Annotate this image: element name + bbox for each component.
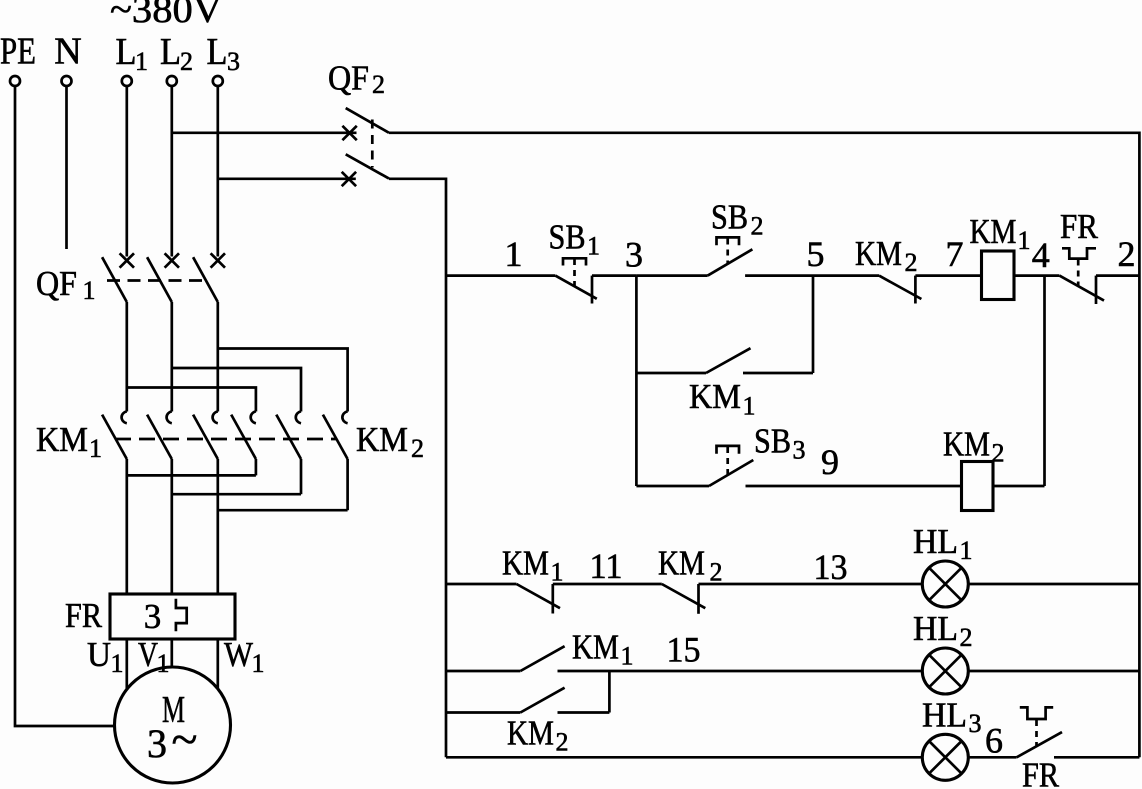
wire KM2 coil up to node 4 — [993, 485, 1045, 488]
svg-text:1: 1 — [89, 434, 102, 463]
thermal relay FR box — [110, 594, 235, 639]
svg-text:3: 3 — [144, 597, 162, 636]
svg-text:FR: FR — [1022, 756, 1060, 789]
contact FR NO (HL3 row) — [1017, 707, 1062, 757]
svg-text:SB: SB — [549, 218, 586, 257]
wire node 5 to KM2 NC — [813, 274, 879, 277]
wire rail to KM1 NO — [446, 670, 520, 673]
terminal N — [62, 76, 72, 86]
contactor KM2 main contact 2 — [276, 411, 301, 494]
wire L1 down to QF1 pole 1 — [125, 86, 128, 257]
wire L3 jumper to KM2 contact 3 — [218, 349, 348, 412]
contactor KM1 main contact 3 — [193, 411, 218, 594]
svg-text:2: 2 — [905, 248, 918, 277]
wire node 3 to SB2 — [636, 274, 707, 277]
svg-text:HL: HL — [913, 609, 958, 648]
contact KM1 NC (HL1 row) — [517, 584, 561, 614]
pushbutton SB2 (NO) — [708, 237, 753, 275]
wire SB2 to node 5 — [745, 274, 813, 277]
contactor KM1 main contact 1 — [102, 411, 127, 594]
svg-text:1: 1 — [960, 536, 973, 565]
right control rail — [1138, 132, 1141, 758]
lamp HL2 — [922, 648, 968, 694]
svg-text:SB: SB — [711, 198, 748, 237]
breaker QF2 pole 2 blade — [346, 154, 389, 178]
svg-text:KM: KM — [507, 714, 554, 753]
contactor KM2 label (main contacts) — [356, 420, 424, 463]
svg-text:PE: PE — [0, 31, 36, 73]
svg-text:1: 1 — [157, 649, 170, 678]
svg-text:KM: KM — [502, 544, 549, 583]
contactor linkage dashed — [115, 438, 337, 441]
wire V1 to motor — [170, 639, 173, 667]
motor terminal label U1 — [87, 635, 124, 678]
wire KM2 NC to KM1 coil — [915, 274, 981, 277]
svg-text:QF: QF — [328, 59, 369, 98]
svg-text:HL: HL — [922, 696, 967, 735]
contactor KM1 main contact 2 — [147, 411, 172, 594]
wire node3 rail to SB3 — [636, 485, 709, 488]
lamp HL3 label — [922, 696, 982, 739]
wire KM2 contact2 bottom jumper — [172, 493, 301, 496]
contact KM1 NO label — [689, 377, 756, 421]
contact KM1 NO (HL2 row) — [520, 646, 564, 671]
pushbutton SB1 label — [549, 218, 601, 261]
breaker QF2 pole 1 cross — [342, 126, 356, 140]
left control rail — [445, 178, 448, 758]
wire SB1 to node 3 — [592, 274, 636, 277]
svg-text:SB: SB — [754, 422, 791, 461]
breaker QF2 label — [328, 59, 385, 100]
svg-text:KM: KM — [689, 377, 741, 416]
svg-text:KM: KM — [943, 425, 990, 464]
breaker QF1 linkage dashed — [107, 279, 206, 282]
wire PE down and to motor frame — [15, 86, 115, 726]
terminal label L1 — [116, 31, 149, 76]
contactor KM2 main contact 3 — [323, 411, 348, 510]
svg-text:KM: KM — [356, 420, 408, 459]
svg-text:2: 2 — [372, 70, 385, 99]
breaker QF1 pole 2 — [147, 253, 179, 411]
contact KM2 NC label (HL1 row) — [658, 544, 723, 587]
svg-text:~380V: ~380V — [110, 0, 223, 31]
wire rail to SB1 — [446, 274, 555, 277]
svg-text:3: 3 — [969, 709, 982, 738]
wire N — [65, 86, 68, 249]
svg-text:U: U — [87, 635, 111, 674]
breaker QF2 pole 2 cross — [342, 172, 356, 186]
svg-text:9: 9 — [821, 442, 839, 482]
svg-text:3: 3 — [147, 721, 167, 766]
wire node 3 down to SB3 row — [635, 276, 638, 486]
svg-text:2: 2 — [751, 212, 764, 241]
wire QF2 pole1 output to right rail — [389, 131, 1139, 134]
pushbutton SB2 label — [711, 198, 764, 241]
coil KM2 label — [943, 425, 1005, 468]
svg-text:KM: KM — [970, 212, 1017, 251]
motor label 3~ — [147, 713, 197, 766]
svg-text:13: 13 — [814, 547, 848, 587]
wire L2 branch to QF2 pole 1 — [172, 131, 357, 134]
svg-text:1: 1 — [551, 558, 564, 587]
svg-text:5: 5 — [807, 234, 825, 274]
contact KM2 NO label (branch row) — [507, 714, 569, 757]
svg-text:2: 2 — [1118, 234, 1136, 274]
wire HL2 to right rail — [968, 670, 1139, 673]
svg-text:2: 2 — [411, 434, 424, 463]
svg-text:1: 1 — [135, 47, 148, 76]
svg-text:3: 3 — [793, 436, 806, 465]
wire branch left — [636, 372, 706, 375]
terminal L2 — [167, 76, 177, 86]
svg-text:1: 1 — [505, 234, 523, 274]
terminal label L3 — [207, 31, 241, 76]
wire L2 down to QF1 pole 2 — [170, 86, 173, 257]
pushbutton SB3 (NO) — [709, 446, 753, 486]
terminal L1 — [122, 76, 132, 86]
lamp HL1 — [922, 561, 968, 607]
terminal L3 — [213, 76, 223, 86]
wire rail to KM2 NO (branch row) — [446, 711, 520, 714]
pushbutton SB1 (NC) — [555, 258, 597, 303]
thermal element symbol — [176, 599, 187, 631]
svg-text:11: 11 — [590, 546, 623, 586]
wire SB3 to KM2 coil — [746, 485, 962, 488]
svg-text:KM: KM — [658, 544, 705, 583]
svg-text:QF: QF — [36, 264, 77, 303]
contactor KM2 main contact 1 — [231, 411, 256, 475]
svg-text:KM: KM — [855, 234, 902, 273]
svg-text:3: 3 — [625, 235, 643, 275]
svg-text:1: 1 — [587, 232, 600, 261]
wire L1 jumper to KM2 contact 1 — [127, 388, 256, 412]
wire L3 branch to QF2 pole 2 — [218, 177, 356, 180]
junction wire to KM2 branch — [608, 671, 611, 713]
svg-text:6: 6 — [985, 721, 1003, 761]
motor terminal label W1 — [224, 635, 265, 678]
wire KM1 NO to lamp HL2 — [558, 670, 923, 673]
wire W1 to motor — [216, 639, 219, 689]
wire node 5 down to KM1 aux branch — [812, 276, 815, 373]
breaker QF2 pole 1 blade — [346, 108, 389, 133]
breaker QF1 pole 1 — [102, 253, 134, 411]
svg-text:1: 1 — [1018, 226, 1031, 255]
svg-text:KM: KM — [572, 628, 619, 667]
wire QF2 pole2 output to left rail — [389, 177, 446, 180]
coil KM1 — [982, 251, 1015, 300]
wire HL3 to FR NO — [968, 756, 1016, 759]
svg-text:FR: FR — [1060, 207, 1099, 246]
svg-text:HL: HL — [913, 522, 958, 561]
svg-text:2: 2 — [960, 623, 973, 652]
wire branch right — [743, 372, 813, 375]
svg-text:1: 1 — [111, 649, 124, 678]
breaker QF1 pole 3 — [193, 253, 225, 411]
breaker QF1 label — [36, 264, 96, 305]
wire to lamp HL1 — [699, 583, 923, 586]
lamp HL3 — [922, 734, 968, 780]
svg-text:1: 1 — [252, 649, 265, 678]
contactor KM1 label (main contacts) — [36, 420, 102, 463]
contact KM2 NC (row 1) — [879, 276, 921, 304]
motor M circle — [115, 667, 231, 783]
contact FR NC (row 1) — [1059, 248, 1104, 304]
contact KM2 NC label (row 1) — [855, 234, 918, 277]
svg-text:2: 2 — [556, 728, 569, 757]
wire HL1 to right rail — [968, 583, 1139, 586]
terminal PE — [10, 76, 20, 86]
wire FR NO to right rail — [1054, 756, 1139, 759]
coil KM2 — [962, 462, 994, 511]
wire node 4 down to KM2 coil row — [1043, 276, 1046, 486]
svg-text:1: 1 — [621, 642, 634, 671]
svg-text:FR: FR — [65, 596, 103, 635]
lamp HL2 label — [913, 609, 973, 652]
breaker QF2 linkage dashed — [371, 120, 374, 168]
svg-text:L: L — [207, 31, 228, 73]
svg-text:W: W — [224, 635, 253, 674]
wire L2 jumper to KM2 contact 2 — [172, 368, 301, 412]
contact KM2 NC (HL1 row) — [662, 584, 706, 614]
svg-text:2: 2 — [180, 47, 193, 76]
contact KM1 NO (self-hold) — [706, 348, 751, 373]
terminal label L2 — [160, 31, 193, 76]
wire L3 down to QF1 pole 3 — [216, 86, 219, 257]
svg-text:~: ~ — [172, 713, 198, 766]
svg-text:KM: KM — [36, 420, 88, 459]
svg-text:7: 7 — [946, 234, 964, 274]
wire rail to lamp HL3 — [446, 756, 922, 759]
contact KM1 NO label (HL2 row) — [572, 628, 634, 671]
lamp HL1 label — [913, 522, 973, 565]
wire FR NC to right rail — [1096, 274, 1139, 277]
wire KM2 contact3 bottom jumper — [218, 509, 348, 512]
svg-text:15: 15 — [667, 630, 701, 670]
svg-text:3: 3 — [227, 47, 240, 76]
svg-text:L: L — [160, 31, 181, 73]
motor terminal label V1 — [138, 635, 170, 678]
svg-text:N: N — [54, 31, 81, 73]
svg-text:1: 1 — [83, 276, 96, 305]
wire KM2 NO to junction — [558, 711, 610, 714]
contact KM1 NC label (HL1 row) — [502, 544, 564, 587]
svg-text:1: 1 — [743, 392, 756, 421]
pushbutton SB3 label — [754, 422, 806, 465]
svg-text:L: L — [116, 31, 137, 73]
contact KM2 NO (branch row) — [520, 688, 564, 713]
svg-text:4: 4 — [1032, 235, 1050, 275]
wire KM2 contact1 bottom jumper — [127, 474, 256, 477]
wire KM1 coil to FR — [1014, 274, 1059, 277]
wire U1 to motor — [125, 639, 128, 689]
wire rail to KM1 NC — [446, 583, 517, 586]
coil KM1 label — [970, 212, 1031, 255]
wire to KM2 NC — [553, 583, 662, 586]
svg-text:2: 2 — [710, 558, 723, 587]
